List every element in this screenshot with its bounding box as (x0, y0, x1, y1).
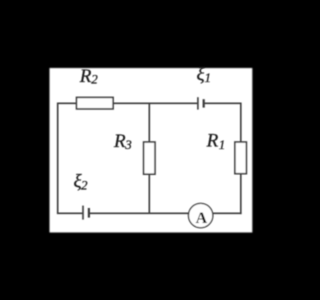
wire top-left segment (58, 102, 77, 104)
svg-text:R: R (79, 66, 92, 87)
wire bottom-left segment (57, 212, 83, 214)
svg-text:3: 3 (124, 137, 132, 152)
battery xi2 short plate (88, 208, 90, 218)
battery xi1 long plate (197, 97, 199, 109)
svg-text:R: R (206, 131, 219, 152)
wire bottom-right segment (213, 212, 242, 214)
svg-text:2: 2 (81, 178, 88, 193)
battery xi1 short plate (203, 99, 205, 107)
wire bottom-middle segment (90, 212, 189, 214)
wire right branch lower (240, 174, 242, 214)
wire middle branch upper (148, 103, 150, 142)
wire top-middle segment (113, 102, 197, 104)
svg-text:2: 2 (91, 72, 98, 87)
resistor R2 (77, 97, 114, 109)
svg-text:1: 1 (205, 70, 212, 85)
resistor R1 (235, 142, 247, 174)
wire right branch upper (240, 103, 242, 143)
wire middle branch lower (148, 174, 150, 213)
svg-text:R: R (113, 131, 126, 152)
svg-text:A: A (196, 210, 208, 227)
ammeter A (188, 203, 212, 227)
wire top-right segment (205, 102, 241, 104)
resistor R3 (144, 142, 155, 174)
wire left branch (57, 103, 59, 214)
scanned page background (50, 68, 253, 233)
svg-text:1: 1 (219, 137, 226, 152)
battery xi2 long plate (82, 206, 84, 220)
